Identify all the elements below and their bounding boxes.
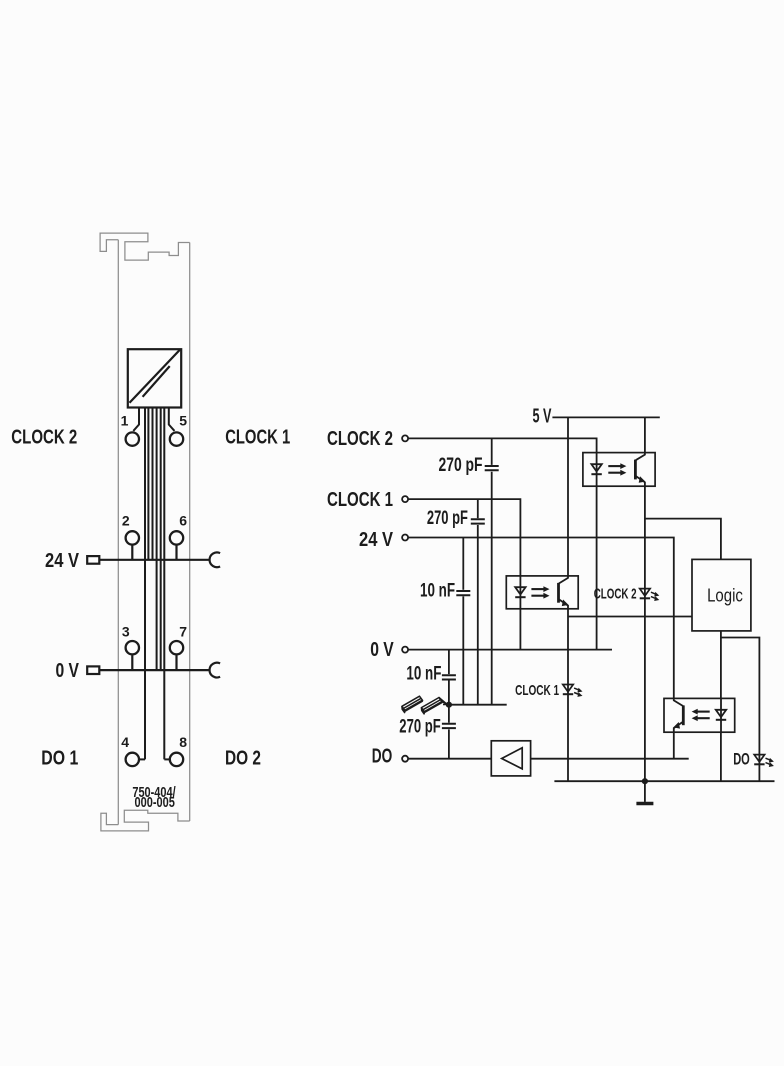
svg-text:DO: DO xyxy=(372,745,393,767)
svg-text:CLOCK 2: CLOCK 2 xyxy=(327,428,393,450)
svg-text:6: 6 xyxy=(179,512,187,528)
svg-text:10 nF: 10 nF xyxy=(420,580,455,601)
svg-text:3: 3 xyxy=(122,624,130,640)
svg-text:270 pF: 270 pF xyxy=(439,455,483,476)
svg-text:1: 1 xyxy=(121,413,129,429)
svg-text:DO 2: DO 2 xyxy=(225,748,261,770)
svg-text:0 V: 0 V xyxy=(370,639,394,661)
svg-text:24 V: 24 V xyxy=(359,529,394,551)
svg-text:Logic: Logic xyxy=(707,584,743,605)
svg-text:7: 7 xyxy=(179,624,187,640)
svg-text:CLOCK 1: CLOCK 1 xyxy=(327,489,393,511)
svg-text:2: 2 xyxy=(122,512,130,528)
svg-text:8: 8 xyxy=(179,734,187,750)
svg-text:24 V: 24 V xyxy=(45,550,80,572)
svg-text:DO: DO xyxy=(733,749,750,768)
svg-text:10 nF: 10 nF xyxy=(406,663,441,684)
svg-text:5 V: 5 V xyxy=(533,405,552,427)
svg-text:CLOCK 1: CLOCK 1 xyxy=(515,682,559,699)
svg-text:270 pF: 270 pF xyxy=(427,508,468,529)
svg-text:DO 1: DO 1 xyxy=(41,748,78,770)
svg-text:270 pF: 270 pF xyxy=(399,717,440,738)
svg-text:CLOCK 2: CLOCK 2 xyxy=(11,426,77,448)
svg-text:CLOCK 2: CLOCK 2 xyxy=(594,586,637,603)
svg-text:CLOCK 1: CLOCK 1 xyxy=(225,426,290,448)
svg-text:0 V: 0 V xyxy=(56,660,80,682)
svg-text:5: 5 xyxy=(179,413,187,429)
svg-text:4: 4 xyxy=(121,734,129,750)
svg-text:000-005: 000-005 xyxy=(135,794,175,811)
